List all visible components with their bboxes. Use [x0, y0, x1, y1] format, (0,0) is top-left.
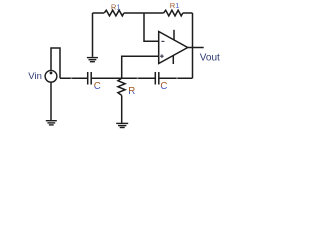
svg-text:R1: R1: [170, 1, 180, 10]
capacitor C (right): [155, 72, 159, 85]
resistor R1 (left): [104, 10, 124, 16]
wire (non-inverting input to node B): [122, 56, 159, 78]
wire (node A down to inverting input): [144, 13, 159, 41]
resistor R1 (right): [164, 10, 183, 16]
wire (node B to capacitor C right): [122, 77, 156, 79]
wire (Vin bottom to ground): [50, 82, 52, 120]
svg-text:C: C: [94, 81, 101, 92]
ground (below resistor R): [116, 123, 128, 127]
wire (R1 to node A to R1): [124, 12, 164, 14]
ground (below Vin): [46, 121, 57, 125]
op-amp U1 minus input marker: [161, 40, 164, 42]
op-amp U1 plus input marker: [160, 54, 164, 58]
svg-text:R: R: [128, 86, 135, 97]
wire (bottom rail to capacitor C left plate): [60, 77, 88, 79]
svg-text:Vout: Vout: [200, 53, 220, 64]
op-amp U1 negative supply pin: [172, 55, 174, 64]
op-amp U1: [159, 32, 188, 64]
wire (ground to R1 left): [93, 12, 105, 14]
svg-text:C: C: [160, 81, 167, 92]
svg-text:R1: R1: [111, 2, 121, 11]
wire (R1 to top-right corner): [183, 12, 193, 14]
ground (top left, left end of R1): [87, 13, 98, 62]
resistor R: [118, 78, 125, 95]
wire (resistor R to ground): [121, 95, 123, 123]
capacitor C (left): [88, 72, 92, 85]
wire (capacitor C to node B): [91, 77, 122, 79]
junction dot on bottom rail (left): [71, 77, 73, 79]
junction dot on bottom rail (right): [176, 77, 178, 79]
voltage source Vin: [45, 70, 57, 82]
wire (op-amp output to Vout stub): [188, 47, 204, 49]
svg-text:Vin: Vin: [28, 71, 42, 82]
wire (feedback vertical, corner down to output node and bottom rail): [192, 13, 194, 78]
wire (Vin top over to bottom rail): [51, 48, 60, 78]
wire (capacitor C to feedback corner): [159, 77, 193, 79]
junction dot on bottom rail (middle): [137, 77, 139, 79]
op-amp U1 positive supply pin: [173, 30, 175, 41]
